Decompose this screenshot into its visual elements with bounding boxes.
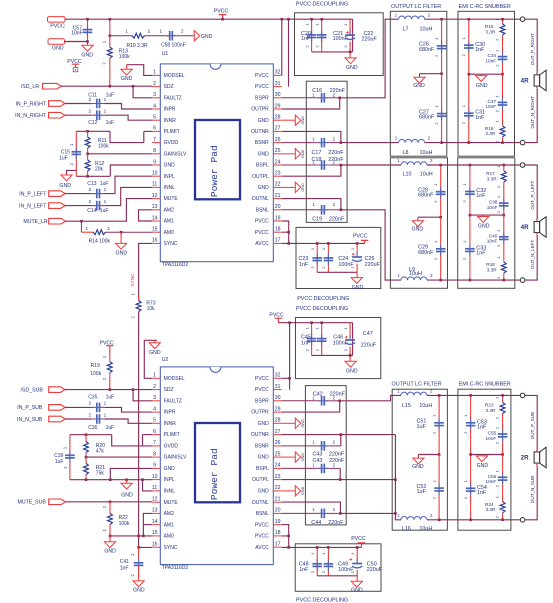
svg-text:C43: C43 — [313, 451, 323, 457]
capacitor C12 — [88, 109, 114, 127]
svg-text:2: 2 — [153, 384, 156, 390]
junction — [503, 214, 506, 217]
node output LC filter box L10 — [390, 158, 447, 288]
ground arrow right of C58 — [194, 31, 212, 41]
port MUTE_SUB — [18, 499, 66, 506]
junction — [394, 512, 397, 515]
junction — [394, 478, 397, 481]
svg-text:BSNR: BSNR — [255, 444, 269, 450]
svg-text:OUTPUT LC FILTER: OUTPUT LC FILTER — [391, 4, 441, 10]
svg-text:GND: GND — [59, 183, 71, 189]
svg-text:IN_N_LEFT: IN_N_LEFT — [19, 203, 47, 209]
svg-text:10nF: 10nF — [486, 436, 497, 441]
connector output P — [520, 17, 525, 22]
wire U2 AM2-AM1-AM0 bracket — [143, 513, 152, 536]
svg-text:7: 7 — [153, 440, 156, 446]
wire U1 PVCC pin32 riser — [281, 19, 283, 75]
svg-text:220nF: 220nF — [329, 458, 345, 464]
wire U2 MODSEL to GND bracket — [144, 340, 157, 378]
ground arrow U1 pin — [282, 115, 305, 125]
wire U2 OUTPR up to bootstrap node — [282, 401, 340, 412]
capacitor C46 — [314, 323, 348, 356]
junction — [137, 546, 140, 549]
svg-text:PVCC: PVCC — [255, 230, 269, 236]
svg-text:100k: 100k — [90, 371, 101, 377]
wire IN_P_LEFT to C13 — [65, 193, 92, 195]
svg-text:23: 23 — [275, 171, 281, 177]
svg-text:3.3R: 3.3R — [485, 507, 496, 512]
svg-text:27: 27 — [275, 126, 281, 132]
wire PLIMIT pin6 tie — [143, 131, 145, 142]
junction — [438, 453, 441, 456]
port MUTE_LR — [23, 218, 65, 225]
node bootstrap box U1 — [306, 81, 347, 222]
svg-text:3.3R: 3.3R — [487, 176, 498, 181]
capacitor C30 — [461, 19, 485, 74]
wire U2 PVCC pins 32/31 feed — [282, 323, 290, 390]
svg-text:100k: 100k — [98, 143, 109, 149]
junction — [501, 73, 504, 76]
wire IN_N_LEFT to C14 — [65, 205, 92, 207]
svg-text:MUTE_LR: MUTE_LR — [23, 219, 47, 225]
svg-text:C47: C47 — [363, 331, 373, 337]
svg-text:TPA3116D2: TPA3116D2 — [162, 565, 189, 571]
inductor L10 — [397, 158, 433, 178]
svg-text:MODSEL: MODSEL — [164, 376, 185, 382]
svg-text:3.3R: 3.3R — [485, 29, 496, 34]
svg-text:1uF: 1uF — [100, 208, 109, 214]
wire C12 to INNR pin5 — [105, 115, 153, 120]
junction — [349, 354, 352, 357]
svg-text:GND: GND — [164, 163, 176, 169]
svg-text:Power Pad: Power Pad — [209, 448, 220, 500]
capacitor C14 — [87, 199, 108, 214]
resistor R13 — [102, 19, 131, 86]
connector output N — [520, 140, 525, 145]
capacitor C42 — [282, 391, 346, 405]
svg-text:C44: C44 — [311, 520, 321, 526]
svg-text:U1: U1 — [162, 51, 169, 57]
svg-text:INNR: INNR — [164, 421, 177, 427]
wire OUT_N_RIGHT to speaker — [525, 89, 537, 143]
junction — [320, 18, 323, 21]
svg-text:BSPL: BSPL — [256, 163, 269, 169]
svg-text:L10: L10 — [403, 172, 412, 178]
capacitor C35 — [88, 395, 114, 413]
svg-text:27: 27 — [275, 429, 281, 435]
U1 pin names — [164, 73, 270, 247]
svg-text:GND: GND — [412, 227, 424, 233]
capacitor C48 — [299, 547, 322, 575]
port /SD_LR — [21, 83, 61, 90]
junction — [339, 478, 342, 481]
junction — [287, 242, 290, 245]
junction — [287, 546, 290, 549]
ground arrow U1 pin — [282, 149, 305, 159]
wire L15 output rail — [427, 394, 521, 396]
junction — [338, 97, 341, 100]
capacitor C18 — [282, 157, 344, 170]
svg-text:OUT_P_RIGHT: OUT_P_RIGHT — [530, 33, 535, 65]
wire gain top to GVDD pin7 — [110, 131, 144, 142]
power PVCC test point — [67, 59, 82, 72]
svg-text:28: 28 — [275, 418, 281, 424]
wire IN_P_SUB to C35 — [65, 406, 92, 408]
svg-text:C41: C41 — [120, 559, 129, 565]
svg-text:GND: GND — [258, 185, 270, 191]
capacitor C57 — [71, 19, 92, 41]
svg-text:PVCC: PVCC — [67, 59, 82, 65]
capacitor C44 — [282, 507, 344, 526]
wire gain network bottom — [76, 175, 110, 177]
svg-text:6: 6 — [153, 429, 156, 435]
resistor R17 — [486, 165, 506, 188]
inductor L15 — [397, 389, 433, 409]
svg-text:OUT_P_LEFT: OUT_P_LEFT — [530, 180, 535, 209]
ground arrow U1 pin — [282, 182, 305, 192]
svg-text:100k: 100k — [119, 54, 130, 60]
junction — [109, 18, 112, 21]
svg-text:24: 24 — [275, 463, 281, 469]
junction — [438, 519, 441, 522]
svg-text:SDZ: SDZ — [164, 84, 174, 90]
junction — [86, 153, 89, 156]
capacitor C20 — [301, 19, 316, 52]
junction — [281, 18, 284, 21]
svg-text:GND: GND — [258, 455, 270, 461]
svg-text:BSPR: BSPR — [255, 398, 269, 404]
junction — [109, 34, 112, 37]
svg-text:GVDD: GVDD — [164, 444, 179, 450]
svg-text:1: 1 — [104, 187, 107, 192]
capacitor C23 — [299, 243, 323, 272]
junction — [327, 546, 330, 549]
junction — [469, 394, 472, 397]
svg-text:1nF: 1nF — [299, 567, 309, 573]
junction — [86, 130, 89, 133]
svg-text:1uF: 1uF — [59, 156, 68, 162]
svg-text:2: 2 — [107, 226, 110, 231]
wire OUT_P_LEFT to speaker — [525, 165, 537, 219]
wire U2 AM1 stub link — [143, 524, 152, 526]
svg-text:GND: GND — [476, 83, 488, 89]
resistor R24 — [485, 495, 505, 520]
wire net /SD_LR to SDZ pin2 — [61, 85, 152, 87]
wire gain network to GND — [67, 170, 77, 175]
svg-text:2: 2 — [148, 29, 151, 34]
svg-text:PVCC: PVCC — [255, 84, 269, 90]
junction — [109, 478, 112, 481]
svg-text:GND: GND — [52, 45, 64, 51]
svg-text:OUTPUT LC FILTER: OUTPUT LC FILTER — [392, 382, 442, 388]
capacitor C36 — [88, 412, 114, 431]
wire L7 output rail — [425, 18, 521, 20]
capacitor C21 — [314, 19, 348, 52]
junction — [109, 388, 112, 391]
node OUT_P_RIGHT — [530, 33, 535, 65]
svg-text:1: 1 — [104, 97, 107, 102]
wire U2 INNL pin11 tie — [143, 480, 153, 491]
svg-text:OUTPR: OUTPR — [251, 107, 269, 113]
junction — [287, 535, 290, 538]
svg-text:1nF: 1nF — [120, 566, 129, 572]
power PVCC symbol U2 supply — [269, 313, 284, 323]
svg-text:100k: 100k — [119, 521, 130, 527]
ground below C41 — [133, 581, 145, 594]
junction — [80, 220, 83, 223]
svg-text:31: 31 — [275, 384, 281, 390]
svg-text:220uF: 220uF — [362, 37, 378, 43]
ground decoupling box bottom — [351, 576, 363, 594]
svg-text:GND: GND — [258, 118, 270, 124]
node PVCC decoupling box mid — [296, 227, 381, 302]
svg-text:AM0: AM0 — [164, 534, 175, 540]
svg-text:PVCC: PVCC — [255, 522, 269, 528]
capacitor C22 — [343, 19, 378, 52]
svg-text:PVCC: PVCC — [214, 9, 229, 15]
wire U2 gain bottom / INPL pin10 — [70, 479, 152, 481]
svg-text:MODSEL: MODSEL — [164, 73, 185, 79]
svg-text:SDZ: SDZ — [164, 387, 174, 393]
junction — [439, 279, 442, 282]
junction — [356, 546, 359, 549]
junction — [440, 141, 443, 144]
wire MUTE_SUB to U2 MUTE pin12 — [65, 501, 152, 503]
svg-text:680nF: 680nF — [418, 193, 434, 199]
junction — [340, 209, 343, 212]
svg-text:AVCC: AVCC — [255, 545, 269, 551]
svg-text:L8: L8 — [403, 150, 409, 156]
svg-text:SYNC: SYNC — [164, 241, 178, 247]
svg-text:PLIMIT: PLIMIT — [164, 129, 180, 135]
junction — [287, 18, 290, 21]
inductor L8 — [395, 136, 433, 157]
svg-text:12: 12 — [152, 497, 158, 503]
svg-text:23: 23 — [275, 474, 281, 480]
svg-text:GND: GND — [133, 588, 145, 594]
port IN_P_RIGHT — [15, 101, 64, 108]
wire OUTNR down to bootstrap node — [282, 131, 341, 142]
wire MUTE_LR to MUTE pin12 — [65, 199, 152, 222]
node PVCC decoupling box top — [295, 2, 384, 76]
svg-text:220nF: 220nF — [329, 451, 345, 457]
wire OUT_N_LEFT to speaker — [525, 235, 537, 280]
svg-text:GND: GND — [301, 183, 305, 192]
ground decoupling box mid — [351, 272, 363, 291]
svg-text:GND: GND — [149, 350, 161, 356]
svg-text:C15: C15 — [61, 149, 70, 155]
svg-text:IN_N_SUB: IN_N_SUB — [17, 417, 43, 423]
svg-text:INPR: INPR — [164, 107, 176, 113]
svg-text:1nF: 1nF — [301, 341, 311, 347]
svg-text:IN_P_LEFT: IN_P_LEFT — [19, 191, 47, 197]
U1 right pin stubs 17-32 — [273, 75, 282, 243]
wire C14 to INNL pin11 — [105, 187, 153, 205]
svg-text:Power Pad: Power Pad — [209, 145, 220, 197]
capacitor C29 — [418, 217, 445, 280]
junction — [310, 321, 313, 324]
junction — [469, 279, 472, 282]
svg-text:EMI C-RC SNUBBER: EMI C-RC SNUBBER — [459, 4, 511, 10]
ground below R14 — [116, 232, 128, 256]
svg-text:16: 16 — [152, 238, 158, 244]
wire L10 LC mid — [418, 216, 441, 218]
port /SD_SUB — [21, 387, 65, 394]
svg-text:1uF: 1uF — [55, 459, 64, 465]
junction — [327, 242, 330, 245]
wire C43 up to OUTNR — [340, 435, 342, 446]
svg-text:220nF: 220nF — [328, 520, 344, 526]
junction — [340, 164, 343, 167]
junction — [85, 478, 88, 481]
junction — [316, 546, 319, 549]
svg-text:PVCC: PVCC — [353, 234, 368, 240]
wire C35 to U2 INPR pin4 — [105, 407, 153, 412]
svg-text:OUT_N_LEFT: OUT_N_LEFT — [530, 240, 535, 270]
svg-text:PVCC: PVCC — [351, 536, 366, 542]
U1 pin numbers — [152, 70, 281, 244]
svg-text:6: 6 — [153, 126, 156, 132]
svg-text:1: 1 — [104, 199, 107, 204]
svg-text:10nF: 10nF — [486, 479, 497, 484]
capacitor C26 — [419, 19, 446, 73]
wire MODSEL to GND bracket — [127, 65, 153, 76]
svg-text:BSNR: BSNR — [255, 140, 269, 146]
svg-text:5: 5 — [153, 418, 156, 424]
svg-text:680nF: 680nF — [419, 47, 435, 53]
wire U2 OUTNL down to bootstrap node — [282, 502, 341, 513]
resistor R14 — [81, 221, 152, 244]
label OUTPUT LC FILTER sub — [392, 382, 442, 388]
port IN_N_SUB — [17, 416, 65, 423]
label OUTPUT LC FILTER top — [391, 4, 441, 10]
junction — [501, 519, 504, 522]
svg-text:GND: GND — [121, 76, 133, 82]
svg-text:OUTPL: OUTPL — [252, 174, 269, 180]
svg-text:PVCC DECOUPLING: PVCC DECOUPLING — [296, 306, 348, 312]
svg-text:GVDD: GVDD — [164, 140, 179, 146]
svg-text:PVCC DECOUPLING: PVCC DECOUPLING — [296, 598, 348, 603]
svg-text:1uF: 1uF — [417, 424, 427, 430]
svg-text:R10 3.3R: R10 3.3R — [127, 43, 149, 49]
svg-text:IN_P_SUB: IN_P_SUB — [17, 405, 43, 411]
svg-text:21: 21 — [275, 193, 281, 199]
svg-text:1nF: 1nF — [476, 193, 486, 199]
wire /SD_SUB to U2 SDZ pin2 — [65, 389, 152, 391]
ground arrow U2 pin — [282, 486, 305, 496]
svg-text:1: 1 — [125, 29, 128, 34]
capacitor C37 — [485, 74, 507, 126]
svg-text:U2: U2 — [162, 357, 169, 363]
node output LC filter box L7 — [390, 11, 447, 156]
svg-text:220nF: 220nF — [329, 217, 345, 223]
junction — [501, 453, 504, 456]
svg-text:30: 30 — [275, 92, 281, 98]
wire U2 PLIMIT stub link — [143, 434, 153, 436]
junction — [469, 214, 472, 217]
svg-text:7: 7 — [153, 137, 156, 143]
port PVCC top-left — [48, 17, 66, 30]
inductor L9 — [397, 267, 433, 280]
svg-text:4R: 4R — [521, 224, 529, 231]
svg-text:680nF: 680nF — [418, 250, 434, 256]
wire GND port to C57 — [65, 41, 88, 43]
node OUT_N_LEFT — [530, 240, 535, 270]
resistor R20 — [84, 435, 106, 457]
wire SYNC to U2 pin16 — [139, 312, 153, 548]
svg-text:SYNC: SYNC — [130, 273, 136, 287]
junction — [288, 377, 291, 380]
svg-text:2R: 2R — [521, 455, 529, 462]
svg-text:12: 12 — [152, 193, 158, 199]
node OUT_N_SUB — [530, 476, 535, 504]
capacitor C56 — [486, 455, 508, 502]
svg-text:18: 18 — [275, 530, 281, 536]
wire OUT_N_SUB to speaker — [525, 466, 537, 520]
svg-text:3.3R: 3.3R — [487, 267, 498, 272]
capacitor C13 — [87, 181, 108, 199]
wire sub switch node P to L15 — [340, 395, 401, 400]
wire U2 gain network top — [70, 434, 112, 436]
svg-text:15: 15 — [152, 530, 158, 536]
svg-text:PVCC: PVCC — [255, 387, 269, 393]
svg-text:FAULTZ: FAULTZ — [164, 95, 182, 101]
svg-text:GND: GND — [412, 464, 424, 470]
junction — [316, 242, 319, 245]
capacitor C19 — [282, 202, 345, 223]
wire PVCC rail — [65, 18, 353, 20]
junction — [132, 85, 135, 88]
svg-text:26: 26 — [275, 440, 281, 446]
wire sub N node row to vertical — [340, 512, 395, 514]
junction — [132, 388, 135, 391]
wire L8 output rail — [425, 142, 521, 144]
junction — [340, 433, 343, 436]
svg-text:1: 1 — [85, 226, 88, 231]
node EMI snubber box R17 — [458, 158, 515, 288]
resistor R12 — [85, 154, 104, 177]
svg-text:INPL: INPL — [164, 174, 175, 180]
connector output P — [520, 163, 525, 168]
wire sub N node vertical to L16 — [395, 435, 401, 520]
svg-text:OUTNL: OUTNL — [252, 500, 269, 506]
svg-text:/SD_SUB: /SD_SUB — [21, 387, 44, 393]
svg-text:10nF: 10nF — [485, 104, 496, 109]
junction — [109, 85, 112, 88]
wire OUTPL up to bootstrap node — [282, 165, 341, 176]
junction — [221, 18, 224, 21]
U2 power pad — [195, 423, 240, 502]
wire OUTNL down to bootstrap node — [282, 199, 341, 210]
svg-text:16: 16 — [152, 542, 158, 548]
svg-text:L15: L15 — [402, 403, 411, 409]
capacitor C53 — [463, 395, 487, 454]
wire net FAULTZ pin3 — [133, 86, 152, 98]
svg-text:220uF: 220uF — [367, 567, 383, 573]
capacitor C28 — [418, 165, 445, 217]
svg-text:3.3R: 3.3R — [485, 131, 496, 136]
wire switch node left channel N to L9 — [341, 210, 401, 280]
resistor R23 — [485, 395, 505, 419]
svg-text:2: 2 — [88, 187, 91, 192]
svg-text:TPA3116D2: TPA3116D2 — [162, 262, 189, 268]
wire gain network top — [76, 130, 110, 132]
svg-text:1uF: 1uF — [106, 120, 115, 126]
capacitor C15 — [59, 131, 81, 176]
junction — [310, 18, 313, 21]
svg-text:OUT_P_SUB: OUT_P_SUB — [530, 412, 535, 439]
svg-text:1: 1 — [153, 70, 156, 76]
